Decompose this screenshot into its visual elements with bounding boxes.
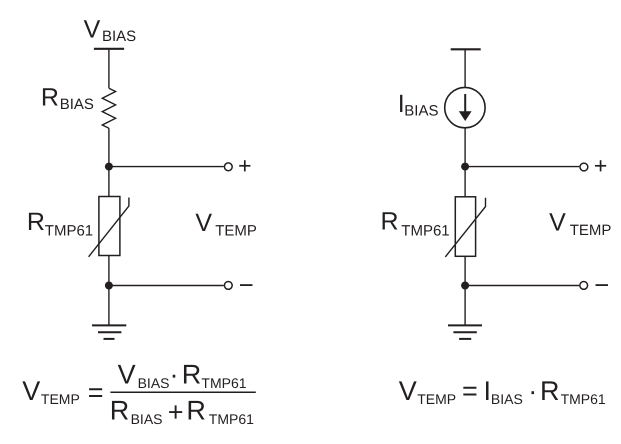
ground right [448, 325, 482, 339]
current source I_BIAS circle [445, 87, 485, 127]
terminal - (open circle) [224, 282, 232, 290]
svg-text:V: V [399, 376, 417, 406]
svg-text:·: · [170, 359, 179, 389]
label R_BIAS [41, 84, 94, 113]
- sign left [240, 284, 253, 286]
wire node A to + terminal [109, 166, 224, 168]
label V_TEMP right [549, 209, 611, 239]
node A junction dot [105, 163, 113, 171]
label I_BIAS [398, 90, 439, 120]
wire bar to current source [464, 49, 466, 87]
svg-text:·: · [528, 376, 537, 406]
wire R_TMP61 to node B [108, 256, 110, 286]
thermistor R_TMP61 right body [455, 197, 475, 256]
formula left: VTEMP = VBIAS*RTMP61/(RBIAS+RTMP61) [22, 359, 254, 427]
svg-text:V: V [84, 15, 101, 43]
wire node C to R_TMP61 right [464, 167, 466, 197]
terminal + (open circle) [224, 163, 232, 171]
node C junction dot [461, 163, 469, 171]
svg-text:TMP61: TMP61 [561, 391, 606, 407]
wire node C to + terminal right [465, 166, 579, 168]
label V_TEMP left [195, 209, 256, 240]
svg-text:TMP61: TMP61 [201, 375, 246, 391]
+ sign right [595, 160, 606, 171]
thermistor R_TMP61 diagonal [89, 198, 129, 257]
svg-text:V: V [22, 376, 40, 406]
svg-text:R: R [186, 396, 206, 426]
svg-text:BIAS: BIAS [404, 103, 438, 120]
svg-text:=: = [88, 378, 104, 408]
current source arrow shaft [464, 94, 466, 112]
node D junction dot [461, 282, 469, 290]
svg-text:BIAS: BIAS [491, 391, 523, 407]
wire node B to - terminal [109, 285, 224, 287]
formula right: VTEMP = IBIAS*RTMP61 [399, 376, 606, 407]
svg-text:=: = [462, 376, 478, 406]
terminal + right (open circle) [580, 163, 588, 171]
svg-text:I: I [484, 376, 492, 406]
node B junction dot [105, 282, 113, 290]
wire current source to node C [464, 128, 466, 167]
svg-text:R: R [110, 396, 130, 426]
svg-text:BIAS: BIAS [138, 375, 170, 391]
svg-text:TMP61: TMP61 [401, 222, 449, 239]
svg-text:BIAS: BIAS [102, 28, 136, 45]
svg-text:TEMP: TEMP [215, 222, 257, 239]
label R_TMP61 right [381, 208, 450, 240]
wire node B to ground [108, 286, 110, 326]
svg-text:BIAS: BIAS [60, 96, 94, 113]
svg-text:R: R [381, 208, 399, 236]
svg-text:TEMP: TEMP [41, 391, 80, 407]
svg-text:R: R [540, 376, 560, 406]
svg-text:R: R [41, 84, 59, 112]
+ sign left [239, 160, 250, 171]
svg-text:V: V [118, 359, 136, 389]
svg-text:V: V [195, 209, 212, 237]
wire node A to R_TMP61 [108, 167, 110, 197]
fraction bar [110, 391, 255, 393]
svg-text:+: + [168, 397, 184, 427]
svg-text:TEMP: TEMP [417, 391, 456, 407]
terminal - right (open circle) [580, 282, 588, 290]
wire VBIAS bar to R_BIAS [108, 49, 110, 88]
thermistor R_TMP61 body [99, 197, 120, 256]
svg-text:R: R [182, 359, 202, 389]
svg-text:TMP61: TMP61 [209, 411, 254, 427]
svg-text:BIAS: BIAS [131, 411, 163, 427]
label R_TMP61 left [27, 208, 93, 239]
power rail bar right [451, 48, 481, 50]
svg-text:TMP61: TMP61 [45, 222, 93, 239]
resistor R_BIAS [102, 88, 115, 128]
wire R_BIAS to node A [108, 128, 110, 166]
svg-text:V: V [549, 209, 566, 237]
svg-text:TEMP: TEMP [570, 222, 612, 239]
current source arrow head [459, 111, 472, 121]
ground left [92, 325, 126, 339]
wire node D to ground right [464, 286, 466, 326]
svg-text:R: R [27, 208, 45, 236]
wire node D to - terminal right [465, 285, 579, 287]
node VBIAS label [84, 15, 137, 45]
thermistor R_TMP61 right diagonal [445, 198, 485, 257]
wire R_TMP61 right to node D [464, 256, 466, 285]
power rail VBIAS bar [94, 48, 124, 50]
- sign right [596, 284, 609, 286]
